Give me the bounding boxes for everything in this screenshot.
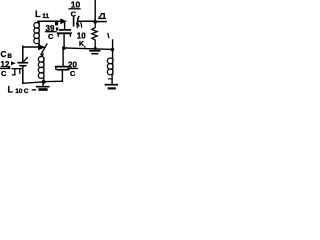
svg-text:C: C (48, 32, 54, 41)
capacitor C10 label 10/C (71, 0, 81, 19)
arrowhead pointing right at coil (38, 44, 45, 50)
blob under wire (55, 22, 58, 25)
ground below L10 (42, 84, 44, 86)
wire vertical right (112, 40, 114, 57)
wire vertical from top edge (94, 0, 96, 21)
svg-text:10: 10 (15, 88, 23, 94)
diagonal arrow of variable inductor L10 (41, 44, 47, 54)
wire stub right of node (96, 21, 106, 23)
tick on right coil stem (108, 78, 111, 80)
wire left horizontal to base (23, 46, 39, 48)
wire mid horizontal (64, 48, 112, 49)
svg-text:11: 11 (42, 13, 49, 20)
junction dot at L10 tap (42, 80, 46, 84)
wire vertical left (22, 66, 24, 83)
ground bottom right (105, 84, 117, 86)
capacitor C20 label 20/C (68, 61, 77, 79)
inductor L10 label (8, 85, 29, 96)
wire tap right (44, 80, 63, 83)
svg-text:L: L (35, 9, 41, 19)
wire corner left (22, 46, 24, 62)
junction dot right (111, 48, 115, 52)
small diagonal tick (24, 57, 27, 61)
svg-text:10: 10 (77, 32, 86, 41)
svg-text:L: L (8, 85, 14, 95)
inductor right coil (107, 58, 113, 64)
svg-text:C: C (70, 69, 76, 78)
pin label 2 (99, 14, 104, 19)
fraction bar and C under 12 (1, 67, 10, 69)
inductor L11 label (35, 9, 49, 20)
tick mark right (107, 34, 110, 38)
wire top horizontal (38, 20, 61, 22)
node junction dot mid (62, 46, 66, 50)
capacitor C mid stem (64, 22, 66, 29)
resistor value label 10K (77, 32, 86, 50)
capacitor C mid plates (60, 29, 70, 31)
inductor L11 coil (38, 21, 39, 23)
svg-text:C: C (1, 50, 7, 59)
capacitor CB plates (18, 62, 27, 64)
arrowhead on top wire (60, 18, 67, 24)
capacitor CB label (1, 50, 13, 60)
label ticks 11 (76, 23, 79, 28)
L11 value label 39/C (46, 24, 55, 41)
svg-text:C: C (1, 69, 7, 78)
ground below resistor (90, 50, 100, 52)
wire vertical to C20 (61, 70, 63, 81)
capacitor C20 plates (56, 66, 70, 68)
capacitor C10 plates (73, 17, 75, 26)
node junction dot top right (93, 20, 97, 24)
resistor R (10K) (92, 24, 97, 48)
junction at resistor bottom (94, 47, 97, 50)
svg-text:C: C (24, 88, 29, 94)
wire from C10 to node (79, 20, 94, 22)
inductor L10 coil (38, 56, 44, 62)
leader arrow (11, 61, 16, 65)
wire tap left (23, 82, 44, 83)
pi-shaped mark (12, 68, 22, 70)
CB value 12 (1, 60, 10, 69)
